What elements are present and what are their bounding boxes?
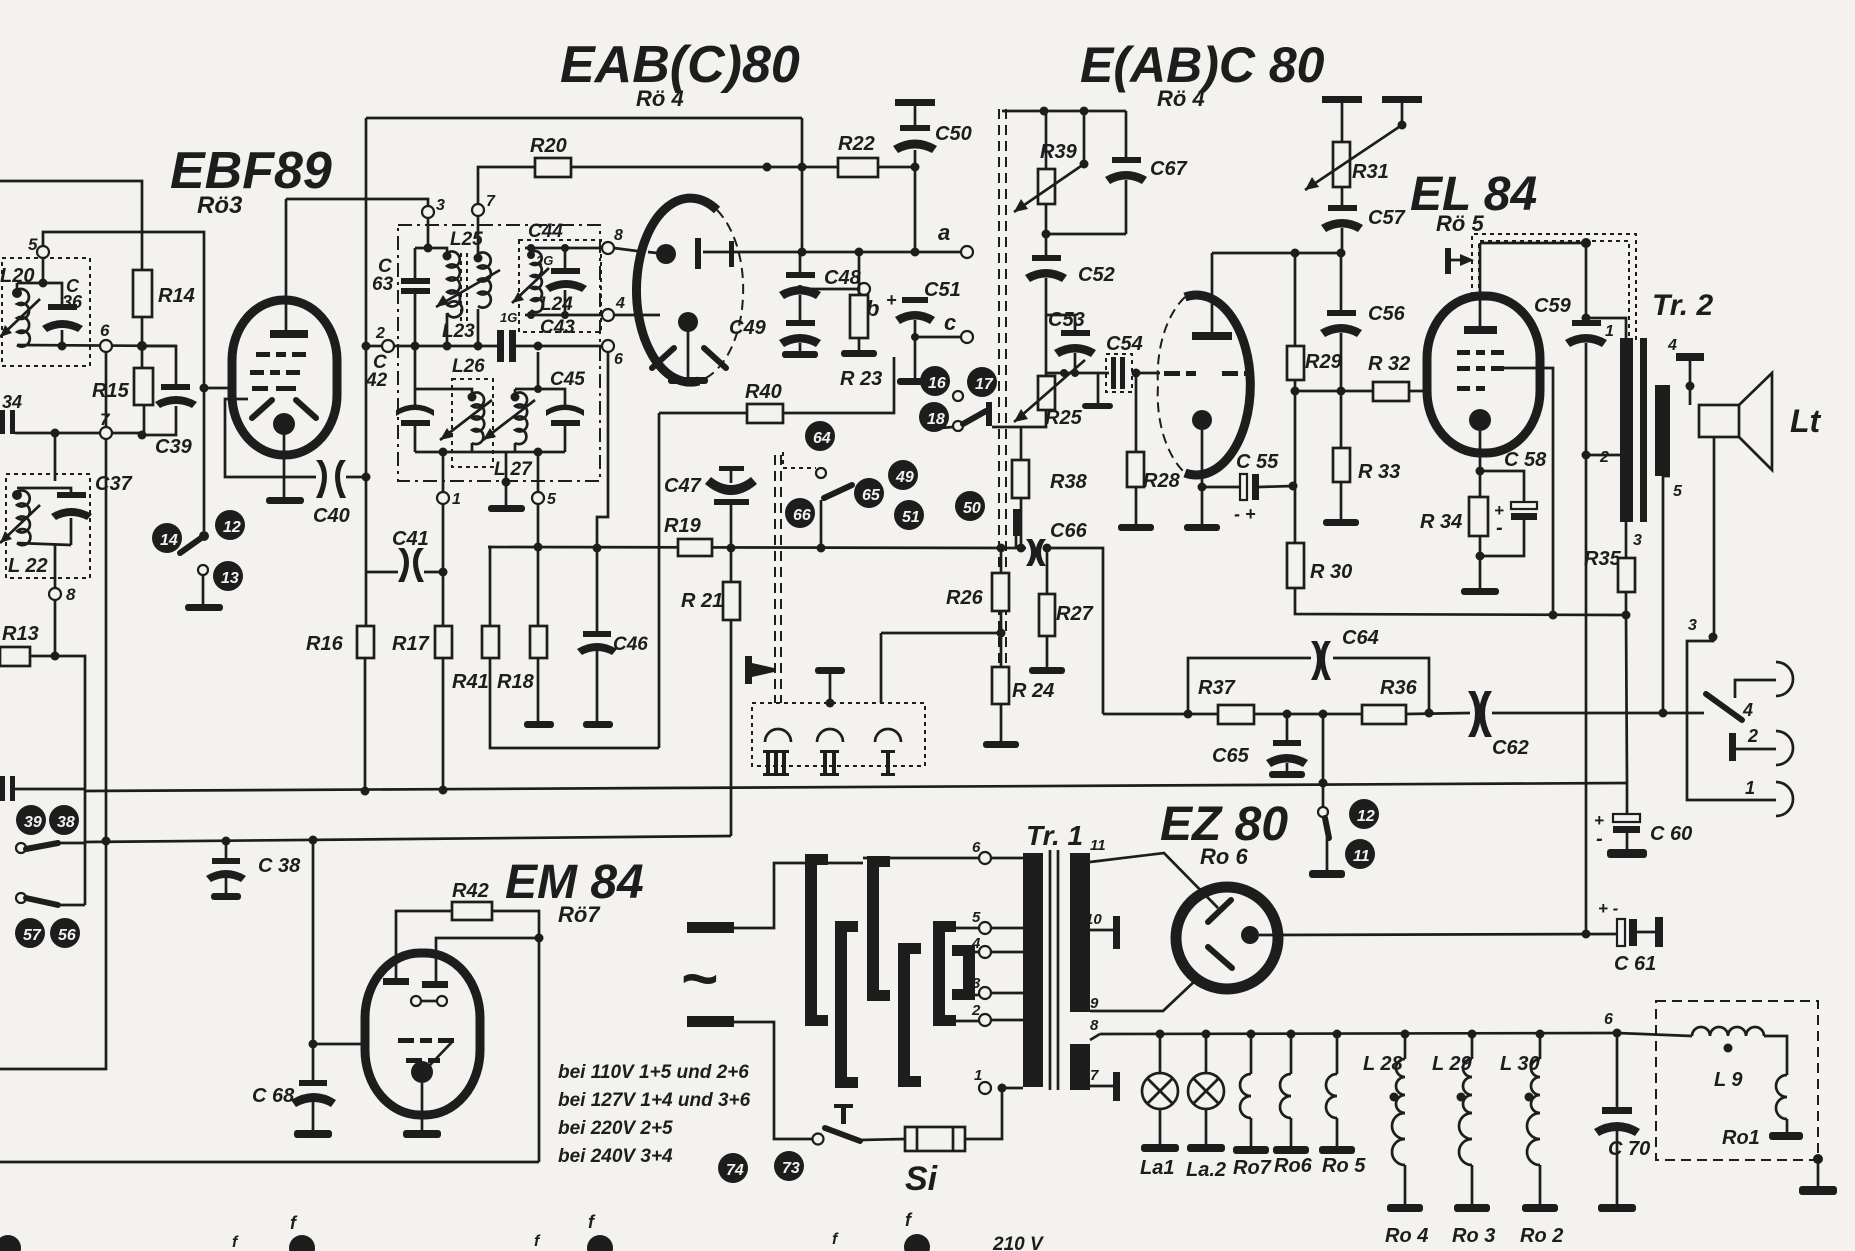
switch circle 16 [920, 366, 950, 396]
terminal a [961, 246, 973, 258]
switch circle 12 right [1349, 799, 1379, 829]
svg-text:R35: R35 [1584, 548, 1622, 570]
svg-text:6: 6 [1604, 1011, 1613, 1028]
Tr2 secondary winding bar [1655, 385, 1670, 476]
svg-text:10: 10 [1085, 911, 1102, 928]
svg-text:16: 16 [928, 375, 946, 392]
EL84 grid dashes [1457, 350, 1504, 355]
wire terminal1 column [442, 504, 445, 626]
svg-text:12: 12 [1357, 808, 1375, 825]
svg-text:C 60: C 60 [1650, 823, 1692, 845]
svg-text:1: 1 [452, 491, 461, 508]
wire tank1 top [415, 248, 447, 253]
shield dashed line [998, 109, 1000, 700]
svg-text:C 55: C 55 [1236, 451, 1279, 473]
dashed box L26 [452, 379, 493, 467]
svg-text:3: 3 [1688, 617, 1697, 634]
svg-text:74: 74 [726, 1162, 744, 1179]
switch circle 73 [774, 1151, 804, 1181]
tube EAB(C)80 envelope solid [636, 198, 717, 382]
svg-text:12: 12 [223, 519, 241, 536]
svg-text:C43: C43 [540, 317, 575, 338]
arrow through L27 [483, 400, 535, 440]
EBF89 g1 dashes [252, 386, 296, 391]
switch circle 18 [919, 402, 949, 432]
antenna tap bar 1 [1322, 96, 1362, 103]
svg-text:18: 18 [927, 411, 945, 428]
Tr1 terminal 2 [979, 1014, 991, 1026]
E(AB)C80 plate [1192, 332, 1232, 340]
svg-text:~: ~ [680, 942, 717, 1014]
switch circle 11 right [1345, 839, 1375, 869]
fuse Si [905, 1127, 965, 1151]
wire plate row to R29 [1212, 252, 1341, 255]
wire AVC row to grid column [43, 232, 204, 388]
bottom terminal dots [0, 1235, 21, 1251]
svg-text:La.2: La.2 [1186, 1159, 1226, 1181]
wire R40 column [658, 413, 661, 748]
phones dashed box [752, 703, 925, 766]
node g1 [200, 384, 209, 393]
svg-text:57: 57 [23, 927, 42, 944]
svg-text:Rö 5: Rö 5 [1436, 211, 1484, 236]
Tr1 heater winding [1070, 1044, 1090, 1090]
svg-text:Lt: Lt [1790, 403, 1822, 439]
svg-text:bei 127V 1+4 und 3+6: bei 127V 1+4 und 3+6 [558, 1090, 751, 1111]
phone jack III [765, 729, 791, 742]
switch circle 56 [50, 918, 80, 948]
svg-text:8: 8 [66, 585, 76, 604]
svg-text:C62: C62 [1492, 737, 1529, 759]
svg-text:R15: R15 [92, 380, 130, 402]
svg-text:R13: R13 [2, 623, 39, 645]
switch circle 50 [955, 491, 985, 521]
Tr2 core bar [1640, 338, 1647, 522]
svg-text:c: c [944, 310, 956, 335]
svg-text:11: 11 [1353, 848, 1370, 865]
svg-text:E(AB)C 80: E(AB)C 80 [1080, 37, 1325, 93]
svg-text:L24: L24 [540, 294, 573, 315]
wire L22 tank feed [54, 433, 57, 481]
inductor L24 [531, 251, 543, 312]
arrow through L24 [512, 268, 549, 303]
svg-text:6: 6 [100, 321, 110, 340]
capacitor C37 [57, 492, 86, 498]
EAB(C)80 grid bar [695, 238, 701, 269]
svg-text:+ -: + - [1598, 899, 1619, 918]
svg-text:C49: C49 [729, 317, 767, 339]
EAB(C)80 plate contact [656, 244, 676, 264]
svg-text:42: 42 [365, 370, 388, 391]
svg-text:Ro 2: Ro 2 [1520, 1225, 1563, 1247]
switch circle 64 [805, 421, 835, 451]
wire R20/R22 row [478, 167, 535, 204]
EAB(C)80 diode plates [652, 348, 674, 368]
wire R36 node to bus [1322, 714, 1325, 783]
Tr2 primary winding bar [1620, 338, 1633, 522]
switch 74/73 lever [813, 1134, 824, 1145]
arrow through L22 [0, 505, 40, 543]
top bus wire [366, 117, 802, 120]
ground R18 [524, 721, 554, 728]
svg-text:4: 4 [1742, 700, 1753, 720]
svg-text:2G: 2G [535, 253, 553, 268]
jack plug 4 [1735, 680, 1776, 698]
ground IF box [505, 452, 508, 505]
EBF89 cathode [273, 413, 295, 435]
wire g1 column to switch [203, 388, 206, 531]
coil Ro5 [1333, 1030, 1342, 1039]
switch circle 17 [967, 367, 997, 397]
EBF89 plate [270, 330, 308, 338]
svg-text:63: 63 [372, 274, 394, 295]
svg-text:6: 6 [614, 351, 623, 368]
EM84 cathode [411, 1061, 433, 1083]
tube EZ80 envelope [1176, 887, 1278, 989]
svg-text:R16: R16 [306, 633, 344, 655]
svg-text:50: 50 [963, 500, 981, 517]
svg-text:C37: C37 [95, 473, 133, 495]
svg-text:C67: C67 [1150, 158, 1188, 180]
svg-text:5: 5 [972, 909, 981, 926]
wire grid row E(AB)C80 [1046, 372, 1109, 375]
svg-text:+: + [886, 290, 897, 310]
svg-text:Rö 4: Rö 4 [636, 86, 684, 111]
wire tank L24 top [525, 247, 608, 250]
svg-text:4: 4 [1667, 337, 1677, 354]
arrow through L20 [0, 299, 40, 337]
Tr1 core [1049, 850, 1052, 1090]
mains prong lower [687, 1016, 734, 1027]
wire C41 row [365, 572, 368, 626]
svg-text:Rö 4: Rö 4 [1157, 86, 1205, 111]
heater bus [1100, 1033, 1617, 1034]
wire term3 to tank top [427, 218, 430, 248]
dashed box L22/C37 [6, 474, 90, 578]
svg-text:Ro7: Ro7 [1233, 1157, 1272, 1179]
lower tank bottom row [415, 451, 565, 454]
node top of L20 tank [39, 279, 48, 288]
terminal 5 [37, 246, 49, 258]
wire tank2 bottom [17, 543, 71, 545]
wire AF takeoff corner [0, 841, 106, 1069]
svg-text:66: 66 [793, 507, 811, 524]
svg-text:Ro 5: Ro 5 [1322, 1155, 1366, 1177]
svg-text:51: 51 [902, 509, 920, 526]
E(AB)C80 cathode [1192, 410, 1212, 430]
selector plate B3 [867, 856, 890, 1001]
svg-text:C52: C52 [1078, 264, 1115, 286]
wire top bus corner down [801, 118, 804, 252]
svg-text:49: 49 [895, 469, 914, 486]
ground C49 [782, 351, 818, 358]
speaker Lt [1699, 405, 1739, 437]
svg-text:- +: - + [1234, 504, 1256, 524]
svg-text:R41: R41 [452, 671, 489, 693]
svg-text:R27: R27 [1056, 603, 1094, 625]
svg-text:4: 4 [615, 295, 625, 312]
wire EZ80 output [1259, 934, 1617, 935]
svg-text:210 V: 210 V [992, 1234, 1044, 1251]
switch 50 contact bar [1013, 509, 1020, 536]
svg-text:bei 240V 3+4: bei 240V 3+4 [558, 1146, 673, 1167]
svg-text:L 9: L 9 [1714, 1069, 1743, 1091]
svg-text:-: - [1496, 517, 1503, 539]
switch circle 12 [215, 510, 245, 540]
jack plug 1 [1687, 637, 1776, 800]
EBF89 screen dashes [256, 352, 306, 357]
svg-text:L 30: L 30 [1500, 1053, 1540, 1075]
switch lever 56/57 [16, 893, 26, 903]
ground C38 [211, 893, 241, 900]
svg-text:R37: R37 [1198, 677, 1236, 699]
svg-text:13: 13 [221, 570, 239, 587]
EL84 grid feed contact [1445, 248, 1451, 274]
switch lever 38/39 [16, 843, 26, 853]
switch circle 65 [854, 478, 884, 508]
svg-text:7: 7 [486, 193, 496, 210]
svg-text:C41: C41 [392, 528, 429, 550]
switch circle 51 [894, 500, 924, 530]
svg-text:-: - [1596, 828, 1603, 850]
switch circle 66 [785, 498, 815, 528]
svg-text:L20: L20 [0, 265, 34, 287]
svg-text:73: 73 [782, 1160, 800, 1177]
selector plate B5 [933, 921, 956, 1026]
ground Ro1 box [1813, 1154, 1823, 1164]
svg-text:39: 39 [24, 814, 42, 831]
svg-text:C50: C50 [935, 123, 972, 145]
svg-text:8: 8 [614, 227, 623, 244]
mains prong upper [687, 922, 734, 933]
svg-text:5: 5 [1673, 483, 1683, 500]
speaker return wire [1713, 437, 1716, 637]
switch circle 74 [718, 1153, 748, 1183]
svg-text:C 61: C 61 [1614, 953, 1656, 975]
switch lever 17/18 [953, 421, 963, 431]
svg-text:R26: R26 [946, 587, 984, 609]
svg-text:R29: R29 [1305, 351, 1343, 373]
svg-text:64: 64 [813, 430, 831, 447]
wire anode row a [648, 252, 666, 254]
terminal 2 [382, 340, 394, 352]
svg-text:R 33: R 33 [1358, 461, 1400, 483]
svg-text:L23: L23 [442, 321, 475, 342]
svg-text:bei 220V 2+5: bei 220V 2+5 [558, 1118, 673, 1139]
wire term6 column [597, 352, 608, 631]
tube EAB(C)80 envelope dashed [699, 210, 743, 381]
svg-text:6: 6 [972, 839, 981, 856]
selector plate B6 [952, 945, 975, 1000]
EL84 cathode [1469, 409, 1491, 431]
lower tank node wire [537, 352, 540, 389]
svg-text:Ro 6: Ro 6 [1200, 844, 1248, 869]
terminal 3 [422, 206, 434, 218]
IF transformer shield box [398, 225, 600, 481]
svg-text:C48: C48 [824, 267, 862, 289]
coupling dashes L25/L23 [460, 253, 462, 325]
EL84 plate [1464, 326, 1497, 334]
svg-text:EBF89: EBF89 [170, 142, 332, 200]
svg-text:9: 9 [1090, 995, 1099, 1012]
terminal 5 [537, 452, 540, 492]
wire node down to R15 [141, 346, 144, 368]
svg-text:3: 3 [436, 197, 445, 214]
svg-text:5: 5 [547, 491, 557, 508]
terminal 6 [100, 340, 112, 352]
svg-text:C40: C40 [313, 505, 350, 527]
EZ80 cathode contact [1241, 926, 1259, 944]
ground EBF89 cathode [266, 497, 304, 504]
phones shield dashes [774, 455, 776, 703]
inductor L20 [17, 289, 30, 347]
terminal 8 [49, 588, 61, 600]
svg-text:C51: C51 [924, 279, 961, 301]
svg-text:C53: C53 [1048, 309, 1085, 331]
screen loop wire [225, 399, 316, 477]
wire EM84 grid [313, 1043, 365, 1046]
selector plate B4 [898, 943, 921, 1087]
svg-text:14: 14 [160, 532, 178, 549]
svg-text:R 30: R 30 [1310, 561, 1352, 583]
wire term8 down to R13 row [54, 600, 57, 656]
svg-text:R18: R18 [497, 671, 535, 693]
svg-text:2: 2 [1747, 726, 1758, 746]
wire R13 to corner [30, 656, 85, 842]
svg-text:C46: C46 [613, 634, 648, 655]
bottom return bus [0, 1161, 539, 1164]
EM84 grid terminals [411, 996, 421, 1006]
svg-text:C 38: C 38 [258, 855, 301, 877]
svg-text:Tr. 1: Tr. 1 [1026, 820, 1083, 851]
switch 64 terminal [816, 468, 826, 478]
svg-text:R19: R19 [664, 515, 702, 537]
EZ80 filament bars [1208, 900, 1231, 922]
Tr1 terminal 3 [979, 987, 991, 999]
E(AB)C80 grid dashes [1222, 371, 1254, 376]
svg-text:R42: R42 [452, 880, 489, 902]
svg-text:C66: C66 [1050, 520, 1088, 542]
svg-text:bei 110V 1+5 und 2+6: bei 110V 1+5 und 2+6 [558, 1062, 749, 1083]
svg-text:8: 8 [1090, 1017, 1099, 1034]
svg-text:C 68: C 68 [252, 1085, 295, 1107]
Tr1 terminal 6 [979, 852, 991, 864]
svg-text:Rö7: Rö7 [558, 902, 601, 927]
wire R14 to node [141, 317, 144, 346]
svg-text:Ro 4: Ro 4 [1385, 1225, 1428, 1247]
svg-text:2: 2 [375, 325, 385, 342]
svg-text:R 34: R 34 [1420, 511, 1462, 533]
switch 13 contact [198, 565, 208, 575]
coil Ro7 [1247, 1030, 1256, 1039]
svg-text:Tr. 2: Tr. 2 [1652, 289, 1713, 322]
svg-text:R 32: R 32 [1368, 353, 1410, 375]
svg-text:R 24: R 24 [1012, 680, 1054, 702]
tube EM84 envelope [365, 953, 480, 1115]
svg-text:R36: R36 [1380, 677, 1418, 699]
Tr1 terminal 1 [979, 1082, 991, 1094]
svg-text:1: 1 [1605, 323, 1614, 340]
AF feedback row wire [1103, 713, 1218, 716]
svg-text:Ro 3: Ro 3 [1452, 1225, 1495, 1247]
Tr1 primary winding [1023, 853, 1043, 1087]
svg-text:L26: L26 [452, 356, 485, 377]
wire plate to C59 [1480, 242, 1586, 245]
EAB(C)80 cathode bar [729, 241, 734, 267]
svg-text:Ro6: Ro6 [1274, 1155, 1313, 1177]
jack contact 2 [1729, 733, 1736, 761]
terminal b [796, 285, 804, 293]
tube EL84 envelope [1427, 296, 1540, 453]
phones input contact [745, 656, 752, 684]
pickup switch terminal [1318, 807, 1328, 817]
svg-text:R38: R38 [1050, 471, 1088, 493]
switch circle 38 [49, 805, 79, 835]
switch circle 57 [15, 918, 45, 948]
phone jack II [817, 729, 843, 742]
dashed box L24/C44 [519, 240, 601, 332]
bus AVC line [488, 547, 1026, 548]
wire term5 column [537, 504, 540, 626]
tube E(AB)C80 envelope dashed [1158, 297, 1185, 473]
svg-text:1: 1 [974, 1067, 982, 1084]
Tr1 HT winding [1070, 853, 1090, 1012]
EBF89 anode electrodes [252, 400, 272, 418]
terminal 7 [472, 204, 484, 216]
wire tank top [17, 283, 62, 304]
switch lever 65/66 [824, 485, 852, 498]
ground under C53 [1097, 373, 1100, 403]
lamp La2 [1202, 1030, 1211, 1039]
switch circle 13 [213, 561, 243, 591]
terminal 8 [602, 242, 614, 254]
svg-text:L 27: L 27 [494, 459, 533, 480]
selector plate B1 [805, 854, 828, 1026]
wire tank L24 bottom [525, 314, 608, 317]
wire tank2 top [17, 488, 71, 492]
wire tank bottom row [17, 345, 176, 346]
dashed box L20/C36 [2, 258, 90, 366]
wire top-left to R14 column [0, 181, 142, 270]
svg-text:R40: R40 [745, 381, 782, 403]
EM84 target plates [383, 978, 409, 985]
terminal 1 [442, 452, 445, 492]
main HT bus [85, 783, 1628, 791]
svg-text:R20: R20 [530, 135, 567, 157]
wire EBF89 plate to terminal 3 [286, 199, 428, 206]
wire term6/term7 column [105, 352, 108, 427]
svg-text:C44: C44 [528, 221, 563, 242]
svg-text:C 70: C 70 [1608, 1138, 1650, 1160]
Tr1 terminal 5 [979, 922, 991, 934]
wire R39 top row [1002, 110, 1126, 113]
wire screen column [365, 118, 368, 572]
svg-text:R28: R28 [1143, 470, 1181, 492]
dashed box Ro1 [1656, 1001, 1818, 1160]
Tr1 terminal 4 [979, 946, 991, 958]
svg-text:Ro1: Ro1 [1722, 1127, 1760, 1149]
svg-text:65: 65 [862, 487, 881, 504]
svg-text:C 58: C 58 [1504, 449, 1547, 471]
terminal 6 [602, 340, 614, 352]
svg-text:Rö3: Rö3 [197, 192, 243, 219]
svg-text:3: 3 [1633, 532, 1642, 549]
EAB(C)80 diode cathode [678, 312, 698, 332]
bus corner to AF row [1048, 548, 1103, 714]
svg-text:C57: C57 [1368, 207, 1406, 229]
svg-text:L 22: L 22 [8, 555, 48, 577]
svg-text:56: 56 [58, 927, 76, 944]
